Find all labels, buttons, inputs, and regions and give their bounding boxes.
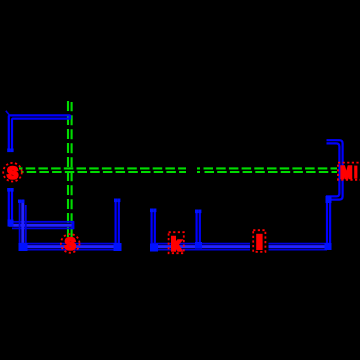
svg-text:M: M (340, 164, 352, 183)
svg-text:k: k (171, 234, 182, 254)
svg-text:S: S (65, 234, 76, 253)
svg-text:S: S (7, 163, 18, 182)
